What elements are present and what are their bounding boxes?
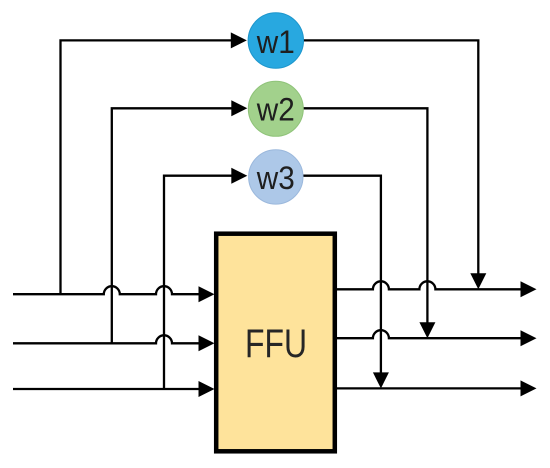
wire w1 output (horizontal + vertical down at x=478) (303, 40, 479, 274)
arrowhead input line 1 into FFU (199, 286, 215, 302)
svg-text:w1: w1 (256, 24, 295, 60)
arrowhead w1 down onto output line 1 (470, 273, 486, 289)
arrowhead w2 down onto output line 2 (419, 322, 435, 338)
svg-text:FFU: FFU (245, 322, 307, 366)
arrowhead input line 2 into FFU (199, 335, 215, 351)
arrowhead input line 3 into FFU (199, 381, 215, 397)
node w1 (blue circle) (248, 13, 303, 68)
block FFU (yellow rectangle) (216, 234, 335, 452)
node w3 (light blue circle) (249, 150, 303, 204)
node w2 (green circle) (248, 81, 303, 136)
wire output line 2 (hop over w3 vertical) (337, 330, 522, 338)
wire feed w3 (vertical V3 + horizontal into w3) (164, 176, 232, 389)
arrowhead output line 1 right (521, 281, 537, 297)
wire input line 3 (13, 388, 200, 390)
wire input line 1 (left input with hops over V2 and V3) (13, 286, 200, 294)
wire input line 2 (left input with hop over V3) (13, 335, 200, 343)
wire w3 output (horizontal + vertical down at x=381) (303, 176, 381, 373)
wire feed w2 (vertical V2 + horizontal into w2) (112, 108, 232, 343)
wire output line 3 (337, 387, 522, 389)
arrowhead into w1 (231, 32, 247, 48)
arrowhead output line 2 right (521, 330, 537, 346)
arrowhead w3 down onto output line 3 (373, 372, 389, 388)
wire feed w1 (vertical V1 + top horizontal into w1) (61, 40, 232, 294)
arrowhead output line 3 right (521, 380, 537, 396)
wire w2 output (horizontal + vertical down at x=427) (303, 108, 428, 323)
svg-text:w3: w3 (256, 160, 295, 196)
wire output line 1 (hops over w3 and w2 verticals) (337, 281, 522, 289)
svg-text:w2: w2 (256, 92, 295, 128)
arrowhead into w2 (231, 100, 247, 116)
arrowhead into w3 (231, 168, 247, 184)
